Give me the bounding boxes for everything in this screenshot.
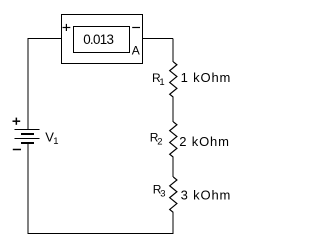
svg-text:0.013: 0.013 (83, 32, 113, 47)
svg-text:3 kOhm: 3 kOhm (181, 188, 232, 203)
svg-text:2: 2 (157, 136, 162, 147)
svg-text:1: 1 (53, 136, 58, 147)
svg-text:2 kOhm: 2 kOhm (179, 134, 230, 149)
svg-text:1 kOhm: 1 kOhm (181, 70, 232, 85)
svg-text:A: A (132, 44, 140, 58)
svg-text:1: 1 (159, 77, 164, 88)
svg-text:3: 3 (160, 188, 165, 199)
